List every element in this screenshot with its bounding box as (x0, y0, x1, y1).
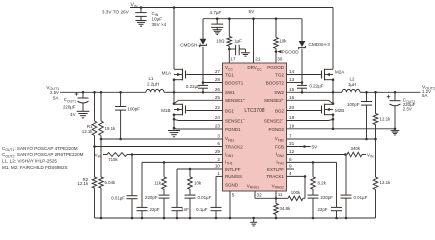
wire EXTLPF (287, 168, 295, 170)
svg-text:SW2: SW2 (274, 90, 284, 95)
svg-text:8.2k: 8.2k (318, 181, 327, 186)
wire BG2 (287, 110, 322, 112)
svg-text:24: 24 (215, 115, 221, 120)
inductor L2 (333, 77, 367, 93)
svg-text:BG1: BG1 (225, 108, 235, 113)
wire ground rail (95, 217, 376, 220)
svg-text:34.8k: 34.8k (280, 206, 292, 211)
svg-text:11k: 11k (154, 181, 162, 186)
IC pin name labels (225, 65, 285, 189)
svg-text:PGND2: PGND2 (268, 127, 284, 132)
svg-text:10k: 10k (279, 39, 287, 44)
wire SENSE2+ (287, 100, 335, 105)
capacitor 4.7uF (210, 10, 224, 35)
node PGOOD label with arrow (277, 49, 299, 54)
svg-text:2.5V: 2.5V (403, 107, 412, 112)
wire SW1 (173, 91, 223, 94)
svg-text:M2B: M2B (335, 108, 344, 113)
notes component table (2, 146, 84, 170)
svg-text:BOOST2: BOOST2 (266, 80, 285, 85)
svg-text:CMDSH-3: CMDSH-3 (180, 42, 202, 47)
svg-text:6: 6 (217, 141, 220, 146)
resistor R1 12.1k (82, 92, 97, 146)
capacitor 0.01uF ION2 (341, 155, 368, 219)
resistor 10k PGOOD pull-up (274, 19, 288, 63)
wire BOOST2 (287, 81, 304, 84)
svg-text:220pF: 220pF (321, 195, 334, 200)
capacitor 0.22uF right (297, 83, 324, 93)
wire DRVCC pin 21 to 5V (253, 19, 255, 63)
svg-text:PGND1: PGND1 (225, 127, 241, 132)
svg-text:0.01µF: 0.01µF (111, 195, 125, 200)
svg-text:28: 28 (215, 77, 221, 82)
svg-text:715k: 715k (108, 157, 118, 162)
svg-text:TRACK1: TRACK1 (266, 174, 284, 179)
wire TG2 (287, 74, 322, 76)
resistor 715k (95, 152, 132, 162)
svg-text:100pF: 100pF (128, 107, 141, 112)
svg-text:3: 3 (217, 134, 220, 139)
node VOUT1 label (46, 85, 59, 101)
svg-text:BOOST1: BOOST1 (225, 80, 244, 85)
svg-text:1nF: 1nF (181, 207, 189, 212)
resistor 11k (154, 162, 166, 189)
wire 5V rail (203, 17, 302, 20)
svg-text:29: 29 (215, 149, 221, 154)
svg-text:22pF: 22pF (150, 207, 160, 212)
capacitor COUT2 (387, 92, 416, 135)
wire PGND2 (287, 128, 397, 131)
transistor M1A (162, 69, 186, 93)
diode D2 CMDSH-3 (299, 19, 331, 83)
svg-text:25: 25 (215, 95, 221, 100)
svg-text:INTLPF: INTLPF (225, 167, 241, 172)
svg-text:220pF: 220pF (145, 195, 158, 200)
resistor 10k INTLPF (188, 169, 202, 189)
svg-text:2.2µH: 2.2µH (147, 82, 159, 87)
svg-text:M1B: M1B (161, 108, 170, 113)
wire SENSE2- (287, 118, 335, 121)
wire TG1 (186, 74, 222, 76)
svg-text:6.04k: 6.04k (105, 180, 117, 185)
svg-text:2: 2 (217, 157, 220, 162)
resistor 12.1k lower right (373, 139, 391, 218)
wire TRACK2 (93, 145, 222, 148)
svg-text:SW1: SW1 (225, 90, 235, 95)
svg-text:35V ×4: 35V ×4 (152, 22, 167, 27)
resistor R2 12.1k (77, 147, 96, 219)
svg-text:SENSE2+: SENSE2+ (264, 97, 285, 103)
svg-text:340k: 340k (351, 146, 361, 151)
svg-text:SENSE1+: SENSE1+ (225, 97, 246, 103)
svg-text:PGOOD: PGOOD (282, 49, 300, 54)
wire INTLPF (177, 168, 223, 171)
wire SENSE1+ (173, 100, 223, 105)
resistor 6.04k (99, 139, 116, 218)
svg-text:1µH: 1µH (348, 82, 356, 87)
svg-text:31: 31 (289, 141, 295, 146)
svg-text:4.7µF: 4.7µF (210, 10, 222, 15)
svg-text:12.1k: 12.1k (380, 117, 392, 122)
svg-text:10Ω: 10Ω (216, 38, 225, 43)
svg-text:0.01µF: 0.01µF (354, 195, 368, 200)
resistor 12.1k upper right (373, 92, 391, 139)
svg-text:19.1k: 19.1k (105, 126, 117, 131)
IC pin numbers (215, 56, 295, 197)
svg-text:18: 18 (289, 115, 295, 120)
wire ION1 (131, 153, 223, 156)
svg-text:TG1: TG1 (225, 72, 234, 77)
svg-text:22pF: 22pF (317, 207, 327, 212)
wire SGND pin 5 (229, 191, 231, 218)
wire VFB2 (287, 138, 377, 141)
svg-text:10µF: 10µF (152, 16, 163, 21)
node 5V label (249, 9, 256, 15)
capacitor 0.22uF left (186, 83, 208, 93)
capacitor 220pF right (308, 189, 334, 218)
svg-text:3.3V TO 26V: 3.3V TO 26V (102, 10, 130, 15)
svg-text:0.22µF: 0.22µF (309, 84, 323, 89)
wire VFB1 (100, 138, 223, 141)
transistor M1B (161, 92, 185, 130)
wire SENSE1- (173, 118, 223, 121)
resistor 34.8k (274, 198, 291, 218)
svg-text:100k: 100k (291, 190, 301, 195)
svg-text:4: 4 (289, 171, 292, 176)
svg-text:220µF: 220µF (63, 105, 76, 110)
svg-text:12: 12 (289, 149, 295, 154)
svg-text:4V: 4V (70, 112, 75, 117)
capacitor 22pF left (137, 162, 160, 218)
capacitor 100pF right (347, 92, 372, 139)
svg-text:2.5V: 2.5V (50, 90, 59, 95)
svg-text:12.1k: 12.1k (77, 181, 89, 186)
svg-text:22: 22 (215, 105, 221, 110)
diode D1 CMDSH-3 (180, 19, 206, 83)
svg-text:5V: 5V (249, 9, 256, 15)
svg-text:TRACK2: TRACK2 (225, 144, 243, 149)
svg-text:26: 26 (215, 87, 221, 92)
svg-text:10: 10 (215, 164, 221, 169)
svg-text:M1, M2: FAIRCHILD FDS6982S: M1, M2: FAIRCHILD FDS6982S (2, 165, 68, 170)
wire PGND1 (173, 127, 223, 130)
svg-text:12.1k: 12.1k (380, 180, 392, 185)
capacitor 220pF left (145, 189, 169, 218)
svg-text:30: 30 (277, 56, 283, 61)
svg-text:8: 8 (289, 157, 292, 162)
svg-text:14: 14 (289, 69, 295, 74)
capacitor 0.01uF ION1 (111, 155, 137, 219)
svg-text:5A: 5A (422, 93, 427, 98)
resistor 19.1k (99, 92, 116, 139)
svg-text:5: 5 (232, 193, 235, 198)
resistor 100k (276, 176, 305, 200)
wire SW2 (287, 91, 335, 94)
wire FCB to 5V (287, 144, 319, 149)
capacitor 100pF left (115, 92, 140, 139)
svg-text:19: 19 (289, 124, 295, 129)
wire RUN/SS (216, 175, 223, 177)
svg-text:100pF: 100pF (347, 102, 360, 107)
svg-text:9: 9 (289, 164, 292, 169)
transistor M2A (322, 69, 345, 93)
svg-text:17: 17 (230, 56, 236, 61)
svg-text:10k: 10k (194, 181, 202, 186)
svg-text:12.1k: 12.1k (82, 129, 94, 134)
svg-text:L1, L2: VISHAY IHLP-2525: L1, L2: VISHAY IHLP-2525 (2, 159, 57, 164)
ground below M1B (168, 131, 180, 137)
svg-text:7: 7 (289, 134, 292, 139)
svg-text:5A: 5A (53, 96, 58, 101)
svg-text:SGND: SGND (225, 182, 239, 187)
resistor 340k (347, 146, 374, 159)
ground symbol center (250, 217, 257, 226)
wire TRACK1 (287, 175, 307, 178)
svg-text:23: 23 (215, 124, 221, 129)
wire VOUT2 rail (365, 91, 420, 94)
svg-text:5V: 5V (312, 144, 319, 149)
svg-text:20: 20 (289, 105, 295, 110)
svg-text:M2A: M2A (335, 70, 344, 75)
svg-text:15: 15 (289, 87, 295, 92)
svg-text:TG2: TG2 (275, 72, 284, 77)
wire ION2 (287, 153, 348, 156)
svg-text:FCB: FCB (275, 144, 284, 149)
svg-text:M1A: M1A (162, 70, 171, 75)
wire VIN rail (130, 6, 333, 69)
svg-text:L1: L1 (148, 76, 154, 81)
capacitor 0.01uF INTLPF (185, 189, 212, 218)
transistor M2B (322, 92, 345, 129)
svg-text:1: 1 (217, 171, 220, 176)
svg-text:CMDSH-3: CMDSH-3 (309, 42, 331, 47)
node VOUT2 label (422, 85, 435, 99)
resistor 10 ohm (216, 19, 231, 63)
svg-text:RUN/SS: RUN/SS (225, 174, 242, 179)
wire VOUT1 rail (60, 91, 146, 94)
capacitor 1uF (229, 38, 250, 56)
wire ITH1 (142, 161, 223, 164)
capacitor CIN (135, 8, 166, 28)
svg-text:BG2: BG2 (275, 108, 285, 113)
svg-text:0.22µF: 0.22µF (186, 84, 200, 89)
op-amp U1 LTC3708 controller IC body (223, 63, 287, 191)
svg-text:21: 21 (255, 56, 261, 61)
capacitor 22pF right (317, 162, 342, 218)
inductor L1 (146, 76, 174, 93)
svg-text:27: 27 (215, 69, 221, 74)
capacitor COUT1 (63, 92, 89, 118)
resistor 8.2k (311, 162, 327, 189)
svg-text:1µF: 1µF (234, 38, 242, 43)
svg-text:0.01µF: 0.01µF (198, 195, 212, 200)
svg-text:SENSE1−: SENSE1− (225, 117, 246, 123)
svg-text:13: 13 (289, 77, 295, 82)
wire VRNG1 VRNG2 tie (255, 191, 277, 200)
svg-text:16: 16 (289, 95, 295, 100)
svg-text:EXTLPF: EXTLPF (267, 167, 284, 172)
svg-text:PGOOD: PGOOD (267, 65, 285, 70)
svg-text:LTC3708: LTC3708 (244, 108, 264, 114)
capacitor 0.1uF RUN/SS (196, 176, 221, 218)
wire BOOST1 (202, 81, 223, 84)
svg-text:11: 11 (278, 192, 283, 197)
node VIN supply label (102, 2, 138, 14)
wire ITH2 (287, 161, 337, 164)
capacitor 1nF (172, 169, 190, 218)
wire BG1 (186, 110, 222, 112)
svg-text:0.1µF: 0.1µF (196, 207, 208, 212)
svg-text:32: 32 (257, 193, 263, 198)
svg-text:SENSE2−: SENSE2− (264, 117, 285, 123)
